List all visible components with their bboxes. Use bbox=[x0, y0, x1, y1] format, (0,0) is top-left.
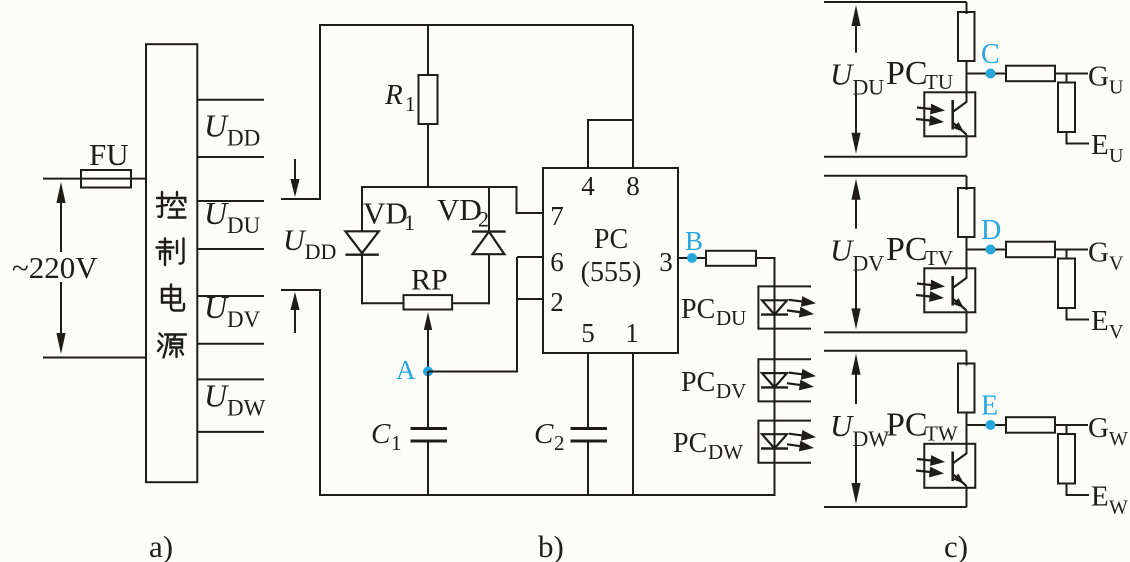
wire emitter to bottom rail block W bbox=[966, 486, 968, 507]
measure arrow U_DV bbox=[851, 179, 860, 330]
wire C1 bottom bbox=[427, 441, 429, 496]
label FU bbox=[89, 137, 129, 172]
wire pin 1 to bottom rail bbox=[632, 353, 634, 496]
svg-text:PC: PC bbox=[681, 294, 715, 325]
svg-text:DV: DV bbox=[227, 307, 261, 332]
svg-text:5: 5 bbox=[581, 318, 595, 348]
svg-text:~220V: ~220V bbox=[12, 250, 98, 285]
wire junction to lower resistor block U bbox=[1066, 74, 1068, 84]
label E (node) bbox=[981, 391, 998, 422]
svg-text:PC: PC bbox=[886, 407, 928, 444]
resistor gate RW2 bbox=[1006, 417, 1055, 433]
label PC_TV bbox=[886, 231, 953, 270]
svg-text:DU: DU bbox=[227, 213, 261, 238]
wire AC input line bottom bbox=[43, 357, 146, 359]
wire bottom rail of 555 section bbox=[319, 494, 775, 496]
svg-text:1: 1 bbox=[625, 318, 639, 348]
label pin 4 bbox=[581, 171, 595, 201]
measure arrow 220V (double-headed) bbox=[56, 182, 65, 354]
light arrows into PC_TU bbox=[916, 104, 945, 126]
svg-text:G: G bbox=[1088, 237, 1109, 269]
resistor gate RV2 bbox=[1006, 242, 1055, 258]
wire to E_W bbox=[1067, 484, 1090, 496]
svg-text:TV: TV bbox=[925, 246, 953, 270]
arrow RP wiper bbox=[424, 312, 432, 372]
label R1 bbox=[384, 79, 416, 116]
wire to E_V bbox=[1067, 308, 1090, 320]
wire left rail upper segment bbox=[319, 24, 321, 199]
svg-text:U: U bbox=[830, 57, 855, 92]
wire junction to lower resistor block W bbox=[1066, 425, 1068, 435]
svg-text:PC: PC bbox=[886, 55, 928, 92]
wire R1 bottom bbox=[427, 124, 429, 188]
label a) bbox=[149, 529, 173, 562]
wire pin 5 to C2 bbox=[587, 353, 589, 429]
svg-text:G: G bbox=[1088, 61, 1109, 93]
wire node C horizontal bbox=[967, 73, 1007, 75]
label pin 5 bbox=[581, 318, 595, 348]
svg-text:DU: DU bbox=[852, 75, 884, 100]
wire pin7 jog bbox=[517, 186, 544, 213]
wire to E_U bbox=[1067, 132, 1090, 144]
label pin 3 bbox=[659, 247, 673, 277]
svg-text:DV: DV bbox=[852, 251, 884, 276]
wire node A to pins 2 and 6 bbox=[428, 257, 543, 372]
svg-text:E: E bbox=[1091, 481, 1109, 513]
wire resistor to G_V bbox=[1055, 249, 1088, 251]
svg-text:(555): (555) bbox=[581, 257, 642, 288]
resistor R1 bbox=[419, 75, 438, 124]
label 控 (control box text char1) bbox=[157, 192, 186, 218]
optocoupler PC_DU (LED side) bbox=[758, 286, 816, 328]
wire C2 bottom bbox=[587, 441, 589, 496]
label G_U bbox=[1088, 61, 1124, 99]
wire emitter to bottom rail block V bbox=[966, 311, 968, 333]
label ~220V bbox=[12, 250, 98, 285]
label E_W bbox=[1091, 481, 1128, 519]
wire junction to lower resistor block V bbox=[1066, 250, 1068, 260]
wire LED chain vertical bbox=[774, 258, 776, 496]
svg-text:U: U bbox=[830, 233, 855, 268]
svg-text:VD: VD bbox=[363, 196, 408, 231]
svg-text:V: V bbox=[1109, 321, 1124, 343]
label C (node) bbox=[981, 39, 1000, 70]
resistor emitter RW3 bbox=[1058, 434, 1075, 484]
svg-text:U: U bbox=[1109, 77, 1124, 99]
wire pin3 resistor to LED chain bbox=[756, 257, 776, 259]
node A bbox=[423, 367, 433, 377]
label 源 (control box text char4) bbox=[158, 334, 186, 358]
wire top rail of 555 section bbox=[319, 24, 633, 26]
svg-text:DD: DD bbox=[227, 125, 260, 150]
diode VD2 bbox=[472, 186, 506, 304]
control power supply box bbox=[146, 44, 197, 482]
light arrows into PC_TV bbox=[916, 280, 945, 302]
label C1 bbox=[371, 418, 402, 455]
svg-text:PC: PC bbox=[886, 231, 928, 268]
label PC_DW bbox=[673, 428, 743, 464]
wire node A down to C1 bbox=[427, 372, 429, 430]
svg-text:V: V bbox=[1109, 253, 1124, 275]
svg-text:FU: FU bbox=[89, 137, 129, 172]
label b) bbox=[538, 529, 564, 562]
svg-text:DW: DW bbox=[708, 440, 743, 464]
svg-text:DU: DU bbox=[716, 306, 746, 330]
label U_DD (555 supply input) bbox=[283, 224, 336, 264]
optocoupler PC_TW (transistor side) box bbox=[924, 444, 975, 488]
svg-text:R: R bbox=[384, 79, 403, 111]
label U_DV (supply output) bbox=[204, 289, 261, 332]
svg-text:2: 2 bbox=[478, 207, 489, 232]
wire pin 4 jog bbox=[588, 120, 633, 168]
wire bottom rail block V bbox=[824, 331, 967, 333]
label 电 (control box text char3) bbox=[162, 285, 184, 311]
label PC_DU bbox=[681, 294, 746, 330]
node D bbox=[986, 245, 996, 255]
svg-text:W: W bbox=[1109, 428, 1128, 450]
wire pin 8 to top rail bbox=[632, 25, 634, 168]
wire control supply output 6 bbox=[197, 343, 264, 345]
label PC_DV bbox=[681, 367, 746, 403]
svg-text:U: U bbox=[1109, 145, 1124, 167]
wire pin 3 out bbox=[678, 257, 706, 259]
wire control supply output 1 bbox=[197, 99, 264, 101]
diode VD1 bbox=[345, 186, 378, 304]
wire AC input line top (through fuse) bbox=[43, 178, 146, 180]
svg-text:DD: DD bbox=[305, 239, 337, 264]
label G_W bbox=[1088, 412, 1128, 450]
wire resistor to G_U bbox=[1055, 73, 1088, 75]
wire control supply output 2 bbox=[197, 156, 264, 158]
svg-text:2: 2 bbox=[550, 287, 564, 317]
svg-text:U: U bbox=[204, 195, 229, 231]
label VD1 bbox=[363, 196, 415, 235]
label pin 7 bbox=[550, 201, 564, 231]
label c) bbox=[944, 529, 968, 562]
measure arrow U_DW bbox=[851, 354, 860, 504]
svg-text:6: 6 bbox=[550, 247, 564, 277]
node B bbox=[687, 253, 697, 263]
svg-text:2: 2 bbox=[554, 431, 565, 455]
arrow U_DD input up bbox=[290, 292, 299, 333]
svg-text:7: 7 bbox=[550, 201, 564, 231]
wire control supply output 3 bbox=[197, 200, 264, 202]
svg-text:G: G bbox=[1088, 412, 1109, 444]
svg-text:U: U bbox=[204, 289, 229, 325]
resistor upper RV1 bbox=[958, 188, 975, 237]
svg-text:A: A bbox=[396, 355, 416, 385]
svg-text:1: 1 bbox=[405, 92, 416, 116]
wire top rail block V bbox=[824, 175, 967, 177]
wire VD network top edge bbox=[362, 186, 517, 188]
label PC (555) line1 bbox=[594, 224, 628, 255]
svg-text:PC: PC bbox=[673, 428, 707, 459]
fuse FU bbox=[81, 170, 131, 188]
label A (node) bbox=[396, 355, 416, 385]
resistor gate RU2 bbox=[1006, 66, 1055, 82]
label U_DW bbox=[830, 408, 889, 451]
wire node E horizontal bbox=[967, 424, 1007, 426]
svg-text:B: B bbox=[685, 226, 703, 256]
optocoupler PC_DV (LED side) bbox=[758, 359, 816, 401]
wire control supply output 7 bbox=[197, 378, 264, 380]
svg-text:C: C bbox=[371, 418, 391, 450]
svg-text:U: U bbox=[283, 224, 307, 257]
wire bottom rail block U bbox=[824, 156, 967, 158]
capacitor C2 bbox=[571, 429, 608, 442]
wire resistor to G_W bbox=[1055, 424, 1088, 426]
phototransistor QV bbox=[953, 276, 967, 311]
measure arrow U_DU bbox=[851, 5, 860, 154]
label U_DU bbox=[830, 57, 884, 100]
optocoupler PC_TV (transistor side) box bbox=[924, 268, 975, 312]
label RP bbox=[411, 264, 448, 297]
phototransistor QU bbox=[953, 100, 967, 135]
op-amp 555 timer box U1 bbox=[543, 168, 678, 353]
wire R1 top bbox=[427, 25, 429, 76]
wire control supply output 4 bbox=[197, 248, 264, 250]
svg-text:PC: PC bbox=[594, 224, 628, 255]
wire resistor to node D bbox=[966, 237, 968, 279]
svg-text:b): b) bbox=[538, 529, 564, 562]
svg-text:c): c) bbox=[944, 529, 968, 562]
optocoupler PC_DW (LED side) bbox=[758, 421, 816, 463]
svg-text:D: D bbox=[981, 215, 1001, 246]
wire VD network bottom edge left bbox=[362, 302, 405, 304]
wire U_DD input upper bracket bbox=[281, 198, 321, 200]
wire rail to resistor block W bbox=[966, 351, 968, 366]
resistor emitter RU3 bbox=[1058, 83, 1075, 133]
svg-text:E: E bbox=[1091, 129, 1109, 161]
label PC (555) line2 bbox=[581, 257, 642, 288]
resistor at pin 3 output bbox=[706, 251, 756, 266]
resistor upper RW1 bbox=[958, 364, 975, 413]
wire top rail block U bbox=[824, 1, 967, 3]
label PC_TU bbox=[886, 55, 953, 94]
label B (node) bbox=[685, 226, 703, 256]
svg-text:RP: RP bbox=[411, 264, 448, 297]
label G_V bbox=[1088, 237, 1124, 275]
label 制 (control box text char2) bbox=[157, 239, 184, 266]
svg-text:3: 3 bbox=[659, 247, 673, 277]
svg-text:DW: DW bbox=[227, 395, 266, 420]
wire left rail lower segment bbox=[319, 290, 321, 496]
wire control supply output 8 bbox=[197, 431, 264, 433]
wire resistor to node C bbox=[966, 61, 968, 103]
wire bottom rail block W bbox=[824, 506, 967, 508]
light arrows into PC_TW bbox=[916, 455, 945, 477]
phototransistor QW bbox=[953, 452, 967, 487]
svg-text:VD: VD bbox=[437, 192, 482, 227]
arrow U_DD input down bbox=[290, 159, 299, 197]
wire resistor to node E bbox=[966, 413, 968, 455]
label U_DD (supply output) bbox=[204, 107, 260, 150]
svg-text:1: 1 bbox=[391, 431, 402, 455]
label E_V bbox=[1091, 305, 1124, 343]
svg-text:C: C bbox=[981, 39, 1000, 70]
wire U_DD input lower bracket bbox=[281, 289, 321, 291]
wire rail to resistor block U bbox=[966, 2, 968, 14]
label pin 8 bbox=[626, 171, 640, 201]
svg-text:DV: DV bbox=[716, 379, 746, 403]
svg-text:8: 8 bbox=[626, 171, 640, 201]
wire node D horizontal bbox=[967, 249, 1007, 251]
label U_DV bbox=[830, 233, 884, 276]
svg-text:U: U bbox=[204, 377, 229, 413]
label D (node) bbox=[981, 215, 1001, 246]
label pin 1 bbox=[625, 318, 639, 348]
label U_DW (supply output) bbox=[204, 377, 266, 420]
optocoupler PC_TU (transistor side) box bbox=[924, 92, 975, 136]
svg-text:a): a) bbox=[149, 529, 173, 562]
label pin 2 bbox=[550, 287, 564, 317]
resistor upper RU1 bbox=[958, 12, 975, 61]
svg-text:C: C bbox=[534, 418, 554, 450]
label E_U bbox=[1091, 129, 1124, 167]
svg-text:PC: PC bbox=[681, 367, 715, 398]
potentiometer RP bbox=[404, 295, 453, 309]
wire control supply output 5 bbox=[197, 295, 264, 297]
node C bbox=[986, 69, 996, 79]
svg-text:E: E bbox=[1091, 305, 1109, 337]
label VD2 bbox=[437, 192, 489, 232]
svg-text:TW: TW bbox=[925, 422, 958, 446]
svg-text:U: U bbox=[830, 408, 855, 443]
capacitor C1 bbox=[411, 429, 448, 442]
label U_DU (supply output) bbox=[204, 195, 261, 238]
svg-text:DW: DW bbox=[852, 426, 889, 451]
node E bbox=[986, 420, 996, 430]
svg-text:TU: TU bbox=[925, 70, 953, 94]
wire rail to resistor block V bbox=[966, 176, 968, 190]
svg-text:E: E bbox=[981, 391, 998, 422]
svg-text:4: 4 bbox=[581, 171, 595, 201]
wire VD network bottom edge right bbox=[452, 302, 490, 304]
svg-text:1: 1 bbox=[404, 210, 415, 235]
wire top rail block W bbox=[824, 350, 967, 352]
resistor emitter RV3 bbox=[1058, 259, 1075, 309]
svg-text:U: U bbox=[204, 107, 229, 143]
label PC_TW bbox=[886, 407, 958, 446]
label pin 6 bbox=[550, 247, 564, 277]
wire emitter to bottom rail block U bbox=[966, 135, 968, 157]
label C2 bbox=[534, 418, 565, 455]
svg-text:W: W bbox=[1109, 497, 1128, 519]
